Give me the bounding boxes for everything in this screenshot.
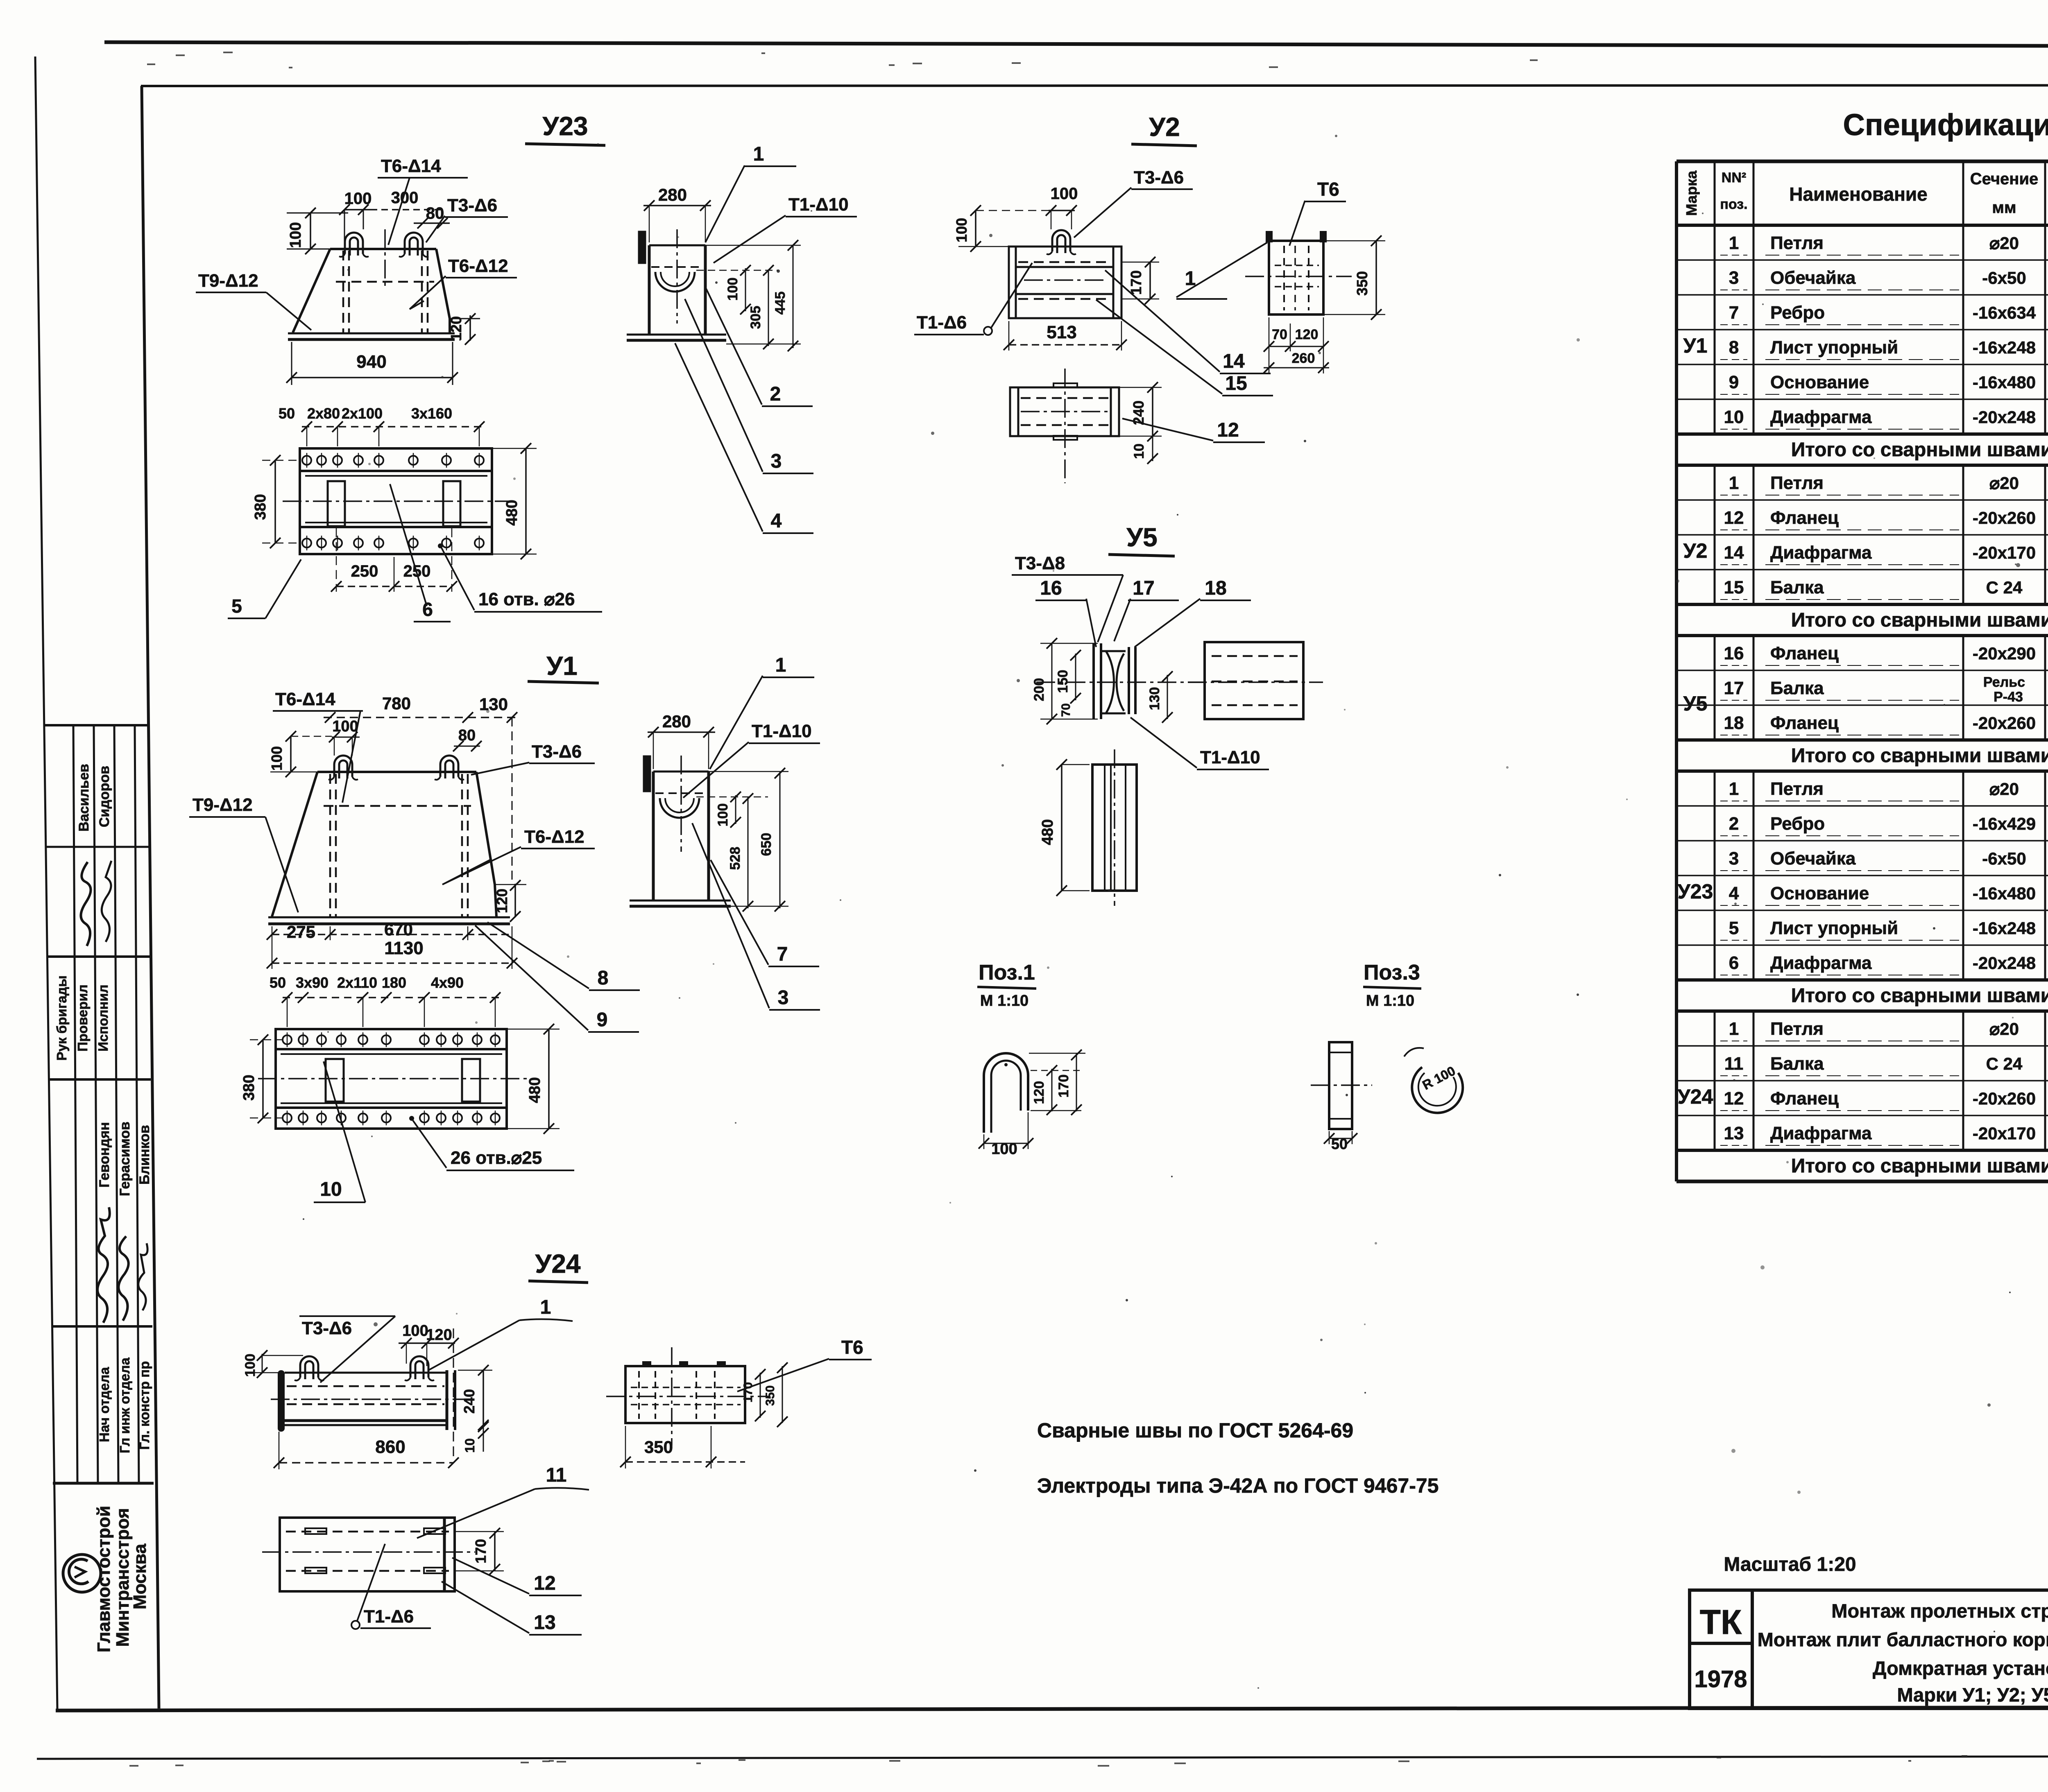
svg-text:16 отв. ⌀26: 16 отв. ⌀26 <box>478 589 575 609</box>
svg-text:-16х634: -16х634 <box>1973 303 2036 322</box>
svg-text:Фланец: Фланец <box>1770 643 1839 663</box>
frame top line <box>104 42 2048 47</box>
У23 plan centerline <box>283 500 510 502</box>
svg-text:⌀20: ⌀20 <box>1989 779 2019 799</box>
svg-text:100: 100 <box>1051 185 1078 203</box>
svg-text:поз.: поз. <box>1720 197 1747 212</box>
svg-text:380: 380 <box>240 1075 258 1100</box>
svg-text:У1: У1 <box>546 651 577 681</box>
svg-text:Т6-Δ12: Т6-Δ12 <box>524 827 584 847</box>
svg-text:-6х50: -6х50 <box>1982 268 2026 287</box>
svg-text:14: 14 <box>1724 543 1744 563</box>
svg-text:275: 275 <box>287 922 315 941</box>
svg-text:4х90: 4х90 <box>431 974 464 991</box>
У1 section base plate <box>630 900 731 902</box>
У5 side view <box>1205 642 1303 719</box>
svg-text:У24: У24 <box>535 1249 581 1278</box>
svg-text:Итого со сварными швами: Итого со сварными швами: <box>1791 1155 2048 1177</box>
svg-text:Ребро: Ребро <box>1770 814 1825 834</box>
svg-text:ТК: ТК <box>1700 1603 1742 1641</box>
svg-text:мм: мм <box>1992 199 2016 217</box>
svg-text:Т1-Δ6: Т1-Δ6 <box>917 312 967 333</box>
svg-text:1: 1 <box>1729 473 1739 493</box>
svg-text:Т6-Δ14: Т6-Δ14 <box>275 689 335 709</box>
svg-text:Марка: Марка <box>1683 170 1700 216</box>
loop petlya right У23 <box>405 233 423 254</box>
svg-text:Лист упорный: Лист упорный <box>1770 337 1898 357</box>
svg-text:Р-43: Р-43 <box>1994 689 2023 705</box>
svg-text:Марки У1; У2; У5; У23; У2: Марки У1; У2; У5; У23; У24. <box>1897 1684 2048 1706</box>
svg-text:170: 170 <box>472 1539 489 1563</box>
svg-text:130: 130 <box>479 695 508 714</box>
svg-text:280: 280 <box>662 712 691 731</box>
svg-text:Т3-Δ8: Т3-Δ8 <box>1015 553 1065 573</box>
У24 plan weld tabs <box>305 1528 326 1534</box>
svg-text:⌀20: ⌀20 <box>1989 233 2019 253</box>
У1 plan bolt holes <box>283 1035 292 1044</box>
Поз.1 loop drawing <box>984 1053 1028 1133</box>
У1 loops <box>334 756 352 777</box>
svg-text:У23: У23 <box>543 111 588 141</box>
svg-text:Обечайка: Обечайка <box>1770 848 1856 869</box>
svg-text:Наименование: Наименование <box>1789 183 1927 205</box>
svg-text:Т1-Δ6: Т1-Δ6 <box>364 1606 414 1627</box>
svg-text:Петля: Петля <box>1770 473 1824 493</box>
svg-text:100: 100 <box>287 222 304 248</box>
svg-text:Обечайка: Обечайка <box>1770 268 1856 288</box>
svg-text:-16х248: -16х248 <box>1973 338 2036 357</box>
svg-text:12: 12 <box>1724 1088 1744 1109</box>
svg-text:80: 80 <box>458 727 476 744</box>
svg-text:120: 120 <box>494 889 510 913</box>
svg-text:Балка: Балка <box>1770 678 1824 698</box>
svg-text:50: 50 <box>270 974 286 991</box>
svg-text:-20х170: -20х170 <box>1973 543 2036 562</box>
svg-text:18: 18 <box>1205 577 1226 599</box>
У23 base plate <box>288 333 455 335</box>
svg-text:Фланец: Фланец <box>1770 1088 1839 1109</box>
svg-text:Монтаж плит балластного коры: Монтаж плит балластного корыта с клеевым… <box>1758 1629 2048 1650</box>
svg-text:У2: У2 <box>1149 112 1180 142</box>
У1 plan slot left <box>326 1059 344 1102</box>
У1 section centerline <box>680 756 682 852</box>
svg-text:17: 17 <box>1724 678 1744 698</box>
svg-text:260: 260 <box>1292 351 1315 366</box>
svg-text:-20х248: -20х248 <box>1973 407 2036 427</box>
svg-text:Поз.3: Поз.3 <box>1364 961 1420 984</box>
strip signature squiggle 3 <box>97 1207 110 1323</box>
svg-text:350: 350 <box>644 1437 673 1457</box>
У24 loops <box>300 1356 318 1378</box>
svg-text:Петля: Петля <box>1770 233 1824 253</box>
svg-text:100: 100 <box>242 1354 258 1377</box>
svg-text:Поз.1: Поз.1 <box>979 961 1035 984</box>
У1 section left tab <box>644 756 650 791</box>
svg-text:3: 3 <box>778 987 789 1009</box>
svg-text:Т6-Δ14: Т6-Δ14 <box>381 156 441 176</box>
svg-text:120: 120 <box>448 316 464 341</box>
svg-text:480: 480 <box>1039 819 1056 845</box>
svg-text:Петля: Петля <box>1770 779 1824 799</box>
svg-text:У24: У24 <box>1678 1085 1713 1108</box>
svg-text:Итого со сварными швами: Итого со сварными швами: <box>1791 985 2048 1007</box>
svg-text:4: 4 <box>771 510 782 532</box>
svg-text:70: 70 <box>1059 703 1073 717</box>
title strip columns <box>73 725 77 1483</box>
svg-text:Итого со сварными швами: Итого со сварными швами: <box>1791 745 2048 767</box>
svg-text:200: 200 <box>1031 678 1047 701</box>
svg-text:Рельс: Рельс <box>1983 674 2025 690</box>
svg-text:100: 100 <box>953 218 970 242</box>
У2 end view (flange) <box>1269 241 1323 315</box>
svg-text:16: 16 <box>1724 643 1744 663</box>
svg-text:М 1:10: М 1:10 <box>1366 992 1414 1009</box>
svg-text:Масштаб 1:20: Масштаб 1:20 <box>1724 1554 1856 1575</box>
strip signature squiggle 2 <box>102 861 111 942</box>
svg-text:У2: У2 <box>1683 539 1708 562</box>
svg-text:12: 12 <box>1217 419 1239 441</box>
svg-text:13: 13 <box>1724 1123 1744 1143</box>
logo circle Главмостострой <box>63 1554 101 1592</box>
svg-text:Основание: Основание <box>1770 883 1869 903</box>
У23 section channel walls <box>648 245 651 335</box>
У23 plan bolt holes top row <box>302 456 311 465</box>
svg-text:Исполнил: Исполнил <box>95 984 111 1052</box>
svg-text:1978: 1978 <box>1694 1666 1747 1692</box>
svg-text:240: 240 <box>461 1389 478 1414</box>
svg-text:Т1-Δ10: Т1-Δ10 <box>752 721 812 741</box>
svg-text:50: 50 <box>279 405 295 422</box>
У1 section saddle arc <box>660 798 699 818</box>
svg-text:-20х260: -20х260 <box>1973 713 2036 733</box>
svg-text:10: 10 <box>320 1179 342 1200</box>
spec table row lines <box>1676 259 2048 261</box>
svg-text:У5: У5 <box>1683 692 1708 715</box>
svg-text:4: 4 <box>1729 883 1739 903</box>
svg-text:Сечение: Сечение <box>1970 170 2039 188</box>
svg-text:120: 120 <box>1295 327 1319 342</box>
svg-text:445: 445 <box>773 292 788 315</box>
frame bottom line <box>56 1707 2048 1711</box>
svg-text:М 1:10: М 1:10 <box>980 992 1029 1009</box>
svg-text:10: 10 <box>1724 407 1744 427</box>
У24 Т6 weld marks <box>643 1362 650 1366</box>
svg-text:-20х260: -20х260 <box>1973 1089 2036 1108</box>
title block 1978 box <box>1690 1643 1752 1708</box>
svg-text:-16х480: -16х480 <box>1973 373 2036 392</box>
svg-text:Фланец: Фланец <box>1770 508 1839 528</box>
svg-text:1: 1 <box>540 1296 551 1318</box>
svg-text:Фланец: Фланец <box>1770 713 1839 733</box>
svg-text:Электроды типа Э-42А по: Электроды типа Э-42А по ГОСТ 9467-75 <box>1037 1474 1439 1497</box>
svg-text:480: 480 <box>503 500 521 525</box>
svg-text:5: 5 <box>1729 918 1739 938</box>
svg-text:10: 10 <box>1131 443 1147 459</box>
У1 plan outline <box>276 1029 507 1129</box>
svg-text:Гевондян: Гевондян <box>97 1122 112 1188</box>
svg-text:15: 15 <box>1225 373 1247 394</box>
У1 plan slot right <box>462 1059 480 1102</box>
svg-text:3: 3 <box>1729 268 1739 288</box>
У24 beam elevation <box>278 1370 285 1432</box>
svg-text:6: 6 <box>1729 953 1739 973</box>
svg-text:480: 480 <box>526 1077 544 1103</box>
У24 plan view <box>280 1518 455 1591</box>
svg-text:3х90: 3х90 <box>296 974 328 991</box>
svg-text:Диафрагма: Диафрагма <box>1770 953 1872 973</box>
У5 bottom view <box>1092 765 1137 891</box>
Поз.3 ring R100 <box>1412 1067 1463 1113</box>
У23 section left tab <box>639 232 645 263</box>
svg-text:8: 8 <box>598 967 609 989</box>
svg-text:100: 100 <box>715 803 731 827</box>
У1 base plate <box>268 916 510 919</box>
svg-text:Т6: Т6 <box>1317 179 1339 200</box>
svg-text:13: 13 <box>534 1612 555 1634</box>
svg-text:16: 16 <box>1040 577 1062 599</box>
svg-text:2х100: 2х100 <box>342 405 383 422</box>
svg-text:-20х170: -20х170 <box>1973 1124 2036 1143</box>
svg-text:170: 170 <box>1056 1075 1072 1098</box>
У23 centerline <box>384 229 386 287</box>
svg-text:Т6: Т6 <box>841 1337 863 1358</box>
svg-text:100: 100 <box>402 1322 428 1339</box>
svg-text:Нач отдела: Нач отдела <box>97 1367 112 1442</box>
svg-text:Диафрагма: Диафрагма <box>1770 543 1872 563</box>
svg-text:Балка: Балка <box>1770 577 1824 597</box>
У1 section channel walls <box>652 772 655 901</box>
У2 beam inner lines <box>1016 266 1113 268</box>
svg-text:Т1-Δ10: Т1-Δ10 <box>1200 747 1260 767</box>
svg-text:Т3-Δ6: Т3-Δ6 <box>302 1318 352 1338</box>
svg-text:Гл. констр пр: Гл. констр пр <box>137 1361 152 1450</box>
svg-text:С 24: С 24 <box>1986 1054 2023 1073</box>
svg-text:350: 350 <box>1354 271 1371 296</box>
svg-text:3: 3 <box>1729 848 1739 869</box>
svg-text:Т3-Δ6: Т3-Δ6 <box>1134 167 1184 188</box>
svg-text:11: 11 <box>1724 1054 1744 1074</box>
svg-text:Т9-Δ12: Т9-Δ12 <box>193 795 253 815</box>
svg-text:100: 100 <box>268 746 285 771</box>
loop petlya left У23 <box>345 233 363 254</box>
strip signature squiggle 4 <box>118 1236 128 1321</box>
svg-text:1: 1 <box>775 654 786 676</box>
svg-text:Итого со сварными швами: Итого со сварными швами: <box>1791 439 2048 461</box>
svg-text:У1: У1 <box>1683 334 1708 357</box>
У23 section base plate <box>627 334 726 336</box>
svg-text:Монтаж пролетных строений: Монтаж пролетных строений 18,2÷55.0м <box>1831 1600 2048 1622</box>
svg-text:⌀20: ⌀20 <box>1989 473 2019 493</box>
У23 section saddle arc <box>655 272 695 292</box>
svg-text:Диафрагма: Диафрагма <box>1770 1123 1872 1143</box>
svg-text:3х160: 3х160 <box>411 405 452 422</box>
svg-text:2х110: 2х110 <box>337 974 377 991</box>
У5 centerline <box>1036 681 1237 683</box>
У23 plan slot right <box>443 481 460 526</box>
svg-text:Васильев: Васильев <box>76 764 92 832</box>
svg-text:-16х248: -16х248 <box>1973 919 2036 938</box>
У1 plan centerline <box>258 1078 528 1079</box>
У2 plan view item 12 <box>1010 387 1119 436</box>
svg-text:8: 8 <box>1729 337 1739 357</box>
svg-text:-6х50: -6х50 <box>1982 849 2026 868</box>
svg-text:С 24: С 24 <box>1986 578 2023 597</box>
svg-text:650: 650 <box>759 833 774 856</box>
svg-text:Балка: Балка <box>1770 1054 1824 1074</box>
title block main box <box>1752 1590 2048 1708</box>
svg-text:Москва: Москва <box>130 1543 150 1609</box>
svg-text:Проверил: Проверил <box>75 984 90 1052</box>
svg-text:1: 1 <box>1729 1019 1739 1039</box>
strip signature squiggle 5 <box>138 1243 148 1310</box>
svg-text:Спецификация металла: Спецификация металла <box>1843 108 2048 142</box>
У2 beam body <box>1009 247 1121 318</box>
svg-text:350: 350 <box>763 1385 777 1406</box>
svg-text:860: 860 <box>375 1437 405 1457</box>
У24 flange view Т6 <box>625 1366 745 1423</box>
svg-text:7: 7 <box>1729 303 1739 323</box>
У23 elevation: trapezoid body <box>330 248 436 250</box>
svg-text:130: 130 <box>1147 687 1162 710</box>
svg-text:18: 18 <box>1724 713 1744 733</box>
title strip horizontal dividers <box>45 724 148 726</box>
svg-text:11: 11 <box>546 1464 567 1486</box>
svg-text:15: 15 <box>1724 577 1744 597</box>
svg-text:Рук бригады: Рук бригады <box>54 975 69 1061</box>
svg-text:Итого со сварными швами: Итого со сварными швами: <box>1791 609 2048 631</box>
svg-text:Диафрагма: Диафрагма <box>1770 407 1872 427</box>
У1 dashed web lines <box>329 774 331 916</box>
У5 flange plate left <box>1092 643 1095 719</box>
svg-text:2: 2 <box>1729 814 1739 834</box>
svg-text:380: 380 <box>252 494 269 520</box>
svg-text:У5: У5 <box>1126 523 1157 552</box>
svg-text:Т9-Δ12: Т9-Δ12 <box>198 271 258 291</box>
svg-text:10: 10 <box>462 1438 477 1453</box>
svg-text:280: 280 <box>658 185 687 204</box>
Поз.3 bar drawing <box>1329 1042 1352 1129</box>
svg-text:-16х480: -16х480 <box>1973 884 2036 903</box>
svg-text:-20х248: -20х248 <box>1973 953 2036 973</box>
У1 plan flange lines <box>276 1048 507 1050</box>
svg-text:Лист упорный: Лист упорный <box>1770 918 1898 938</box>
svg-text:305: 305 <box>748 306 763 329</box>
svg-text:У23: У23 <box>1678 880 1713 903</box>
svg-text:100: 100 <box>332 718 358 735</box>
У5 rail profile <box>1102 650 1126 652</box>
svg-text:5: 5 <box>231 595 242 617</box>
У1 elevation trapezoid <box>317 771 476 773</box>
svg-text:670: 670 <box>384 920 413 939</box>
У2 loop petlya <box>1052 230 1070 251</box>
У23 plan bolt holes bottom row <box>302 539 311 548</box>
svg-text:-16х429: -16х429 <box>1973 814 2036 833</box>
svg-text:Т1-Δ10: Т1-Δ10 <box>788 195 849 215</box>
svg-text:150: 150 <box>1055 670 1071 693</box>
svg-text:2: 2 <box>770 383 781 405</box>
svg-text:26 отв.⌀25: 26 отв.⌀25 <box>451 1148 542 1168</box>
svg-text:170: 170 <box>1128 270 1144 295</box>
У2 centerline <box>1024 279 1106 281</box>
svg-text:Т6-Δ12: Т6-Δ12 <box>448 256 508 276</box>
title block ТК box <box>1690 1590 1752 1643</box>
svg-text:Петля: Петля <box>1770 1019 1824 1039</box>
svg-text:Блинков: Блинков <box>137 1125 152 1185</box>
svg-text:7: 7 <box>777 944 788 965</box>
sheet scan bottom edge <box>37 1756 2048 1759</box>
svg-text:1: 1 <box>1729 779 1739 799</box>
svg-text:12: 12 <box>1724 508 1744 528</box>
sheet scan left edge <box>35 57 57 1709</box>
svg-text:Главмостострой: Главмостострой <box>94 1506 114 1652</box>
У23 plan flange lines <box>300 470 492 472</box>
У23 section centerline <box>676 229 678 324</box>
svg-text:Т3-Δ6: Т3-Δ6 <box>532 742 582 762</box>
svg-text:513: 513 <box>1047 322 1076 342</box>
svg-text:Ребро: Ребро <box>1770 303 1825 323</box>
svg-text:180: 180 <box>382 974 406 991</box>
spec table header grid <box>1676 224 2048 227</box>
svg-text:Гл инж отдела: Гл инж отдела <box>117 1358 132 1453</box>
svg-text:⌀20: ⌀20 <box>1989 1019 2019 1039</box>
У23 plan outline <box>300 448 492 554</box>
У23 plan slot left <box>328 481 345 526</box>
svg-text:9: 9 <box>1729 372 1739 392</box>
svg-text:170: 170 <box>741 1382 755 1403</box>
svg-text:120: 120 <box>1031 1081 1047 1104</box>
svg-text:Герасимов: Герасимов <box>117 1122 133 1196</box>
svg-text:940: 940 <box>356 352 386 372</box>
svg-text:12: 12 <box>534 1573 555 1594</box>
svg-text:2х80: 2х80 <box>307 405 340 422</box>
svg-text:528: 528 <box>727 847 743 870</box>
svg-text:3: 3 <box>771 450 782 472</box>
svg-text:9: 9 <box>597 1009 608 1031</box>
frame left line <box>142 86 159 1708</box>
У23 dashed web lines <box>342 251 344 333</box>
svg-text:Сварные швы по ГОСТ 5264-: Сварные швы по ГОСТ 5264-69 <box>1037 1419 1353 1442</box>
svg-text:NN²: NN² <box>1722 170 1746 186</box>
svg-text:780: 780 <box>382 694 411 713</box>
svg-text:1130: 1130 <box>384 938 423 958</box>
svg-text:Сидоров: Сидоров <box>97 766 112 827</box>
frame top inner line <box>141 85 2048 86</box>
svg-text:70: 70 <box>1272 327 1287 342</box>
svg-text:250: 250 <box>351 562 378 580</box>
svg-text:Основание: Основание <box>1770 372 1869 392</box>
svg-text:17: 17 <box>1133 577 1154 599</box>
svg-text:6: 6 <box>422 599 433 620</box>
spec table outer border <box>1676 160 2048 163</box>
svg-text:100: 100 <box>725 278 741 301</box>
svg-text:1: 1 <box>1729 233 1739 253</box>
svg-text:14: 14 <box>1223 351 1245 372</box>
svg-text:-20х260: -20х260 <box>1973 508 2036 527</box>
svg-text:Домкратная установка. Дет: Домкратная установка. Детали. <box>1873 1657 2048 1679</box>
strip signature squiggle 1 <box>81 862 91 946</box>
svg-text:1: 1 <box>753 143 764 165</box>
svg-text:-20х290: -20х290 <box>1973 644 2036 663</box>
svg-text:Т3-Δ6: Т3-Δ6 <box>447 195 497 215</box>
У5 flange plate right <box>1128 647 1130 714</box>
